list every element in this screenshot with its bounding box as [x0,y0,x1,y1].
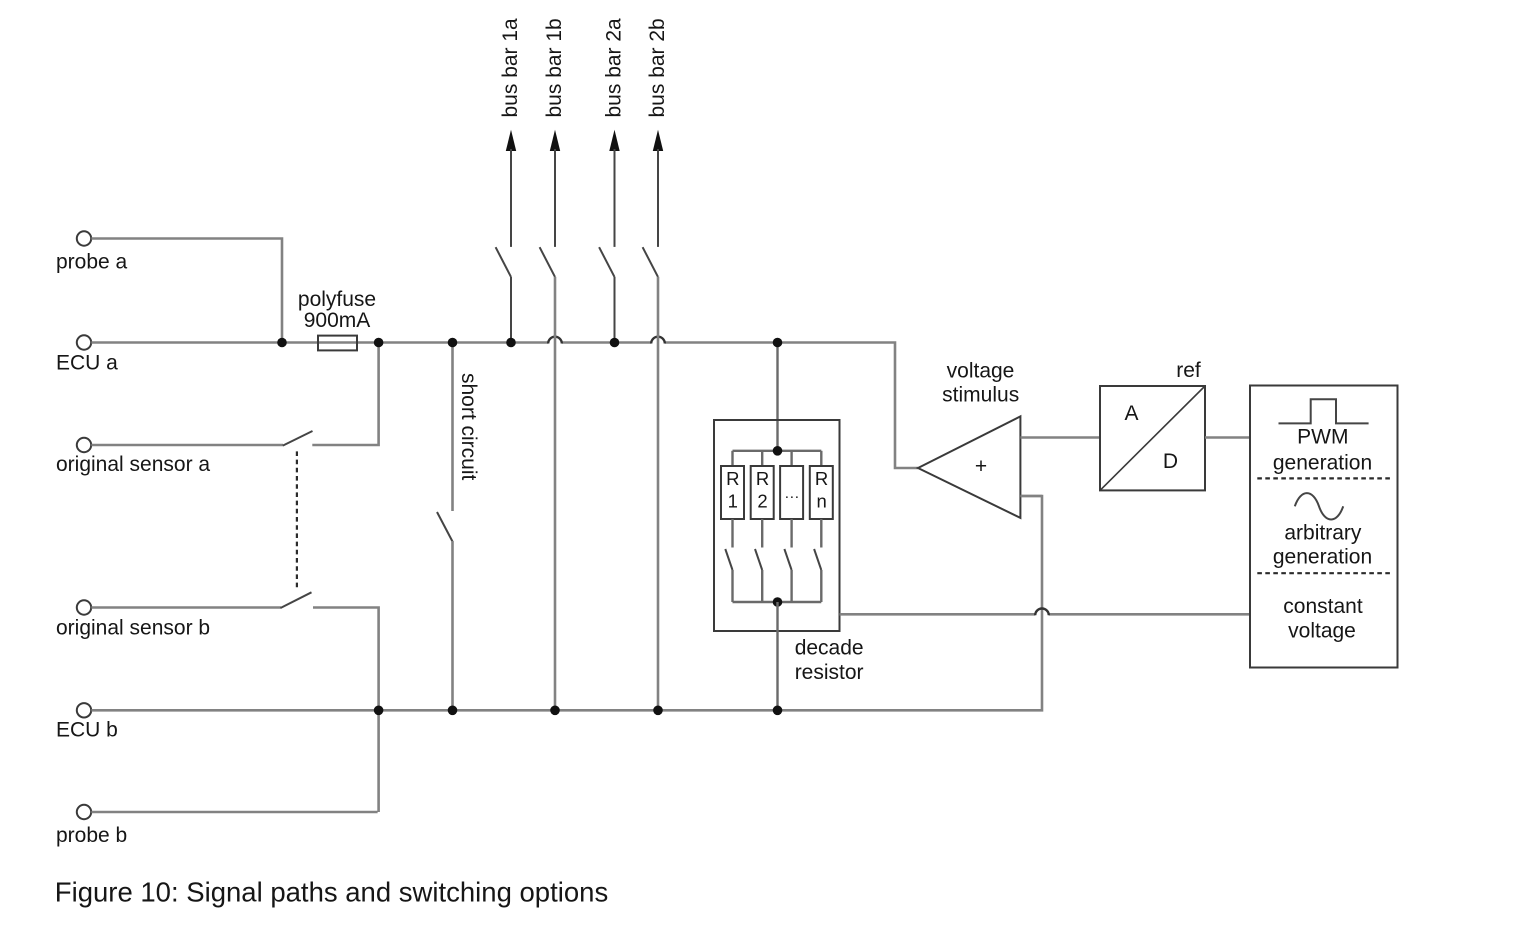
svg-text:R: R [756,468,769,489]
wire A/D to generator box [1205,436,1250,439]
wire original sensor b left [91,606,281,609]
resistor Rn [810,451,833,519]
terminal original sensor a [56,438,210,476]
generator box [1250,386,1398,668]
resistor R2 [751,451,774,519]
svg-text:n: n [816,491,826,512]
op-amp voltage stimulus [918,416,1020,518]
label bus bar 1b [543,18,566,117]
resistor R dots [780,451,803,519]
wire probe a to ECU a node [91,239,282,342]
switch original sensor a blade [283,431,313,446]
bus bar 2a arrow [609,130,619,247]
node ECU a / decade feed [773,338,783,348]
separator dashed 2 [1257,572,1390,574]
bus bar 2b switch blade [643,247,658,277]
svg-text:short circuit: short circuit [457,373,480,481]
wire ECU b row to op-amp input [91,496,1042,710]
node decade top [773,446,783,456]
svg-text:900mA: 900mA [304,309,371,332]
node ECU b / probe b [374,706,384,716]
node ECU b / bus bar 2b [653,706,663,716]
mechanical coupling dashed link [296,451,298,588]
separator dashed 1 [1257,477,1390,479]
bus bar 2a switch blade [599,247,614,277]
node ECU b / decade resistor [773,706,783,716]
svg-text:2: 2 [757,491,767,512]
svg-text:1: 1 [728,491,738,512]
polyfuse component [318,336,357,351]
svg-text:probe a: probe a [56,251,128,274]
node ECU a / bus bar 1a [506,338,516,348]
decade resistor box [714,420,840,631]
svg-text:bus bar 1b: bus bar 1b [543,18,566,117]
A/D converter U1 [1100,386,1205,490]
sine symbol [1295,493,1343,519]
svg-text:bus bar 1a: bus bar 1a [499,18,522,118]
switch short circuit (upper segment) [451,343,454,512]
wire op-amp to A/D [1020,436,1100,439]
node ECU b / short circuit [448,706,458,716]
svg-text:constant: constant [1283,595,1363,618]
resistor R1 [721,451,744,519]
label voltage stimulus [942,359,1019,406]
switch Rn [814,519,821,602]
bus bar 1b switch blade [540,247,555,277]
svg-text:A: A [1124,402,1138,425]
node decade bottom [773,597,783,607]
svg-text:D: D [1163,450,1178,473]
svg-text:R: R [815,468,828,489]
node ECU a / short circuit [448,338,458,348]
svg-text:voltage: voltage [1288,620,1356,643]
switch R1 [725,519,732,602]
svg-text:Figure 10: Signal paths and sw: Figure 10: Signal paths and switching op… [55,877,608,908]
terminal ECU b [56,703,118,741]
label arbitrary generation [1273,522,1372,569]
svg-text:ref: ref [1176,359,1201,382]
svg-text:voltage: voltage [947,359,1015,382]
svg-text:generation: generation [1273,451,1372,474]
wire decade resistor feed from ECU a [776,343,778,451]
wire decade bottom to ECU b [776,602,778,710]
wire probe b [91,811,377,814]
bus bar 1a arrow [506,130,516,247]
wire short circuit lower segment [451,541,454,710]
bus bar 1a switch blade [496,247,511,277]
svg-text:+: + [975,455,987,478]
terminal probe b [56,805,127,847]
label constant voltage [1283,595,1363,643]
wire hop over bus bar 1b [548,337,562,344]
label bus bar 2b [646,18,669,117]
node ECU a / bus bar 2a [610,338,620,348]
svg-text:ECU b: ECU b [56,719,118,742]
switch R dots [784,519,791,602]
terminal ECU a [56,335,118,374]
svg-text:original sensor a: original sensor a [56,453,210,476]
label decade resistor [795,637,864,684]
label PWM generation [1273,426,1372,475]
svg-text:resistor: resistor [795,661,864,684]
node ECU a / probe a [277,338,287,348]
svg-text:probe b: probe b [56,824,127,847]
decade resistor bottom rail [733,601,822,603]
wire op-amp lower input [1020,495,1042,498]
bus bar 1b arrow [550,130,560,247]
label bus bar 1a [499,18,522,118]
bus bar 2b arrow [653,130,663,247]
switch short circuit blade [437,512,453,542]
wire original sensor b right down to probe b [313,608,379,813]
wire bus bar 1a to ECU a [510,277,512,342]
switch original sensor b blade [281,592,312,608]
svg-text:stimulus: stimulus [942,383,1019,406]
decade resistor top rail [733,450,822,452]
wire decade output to constant voltage (hops over vertical) [840,613,1251,616]
wire original sensor a right up to fuse node [312,341,378,445]
terminal probe a [56,231,128,273]
label short circuit [457,373,480,481]
wire ECU a row (hops over bus bar 1b and 2b) [91,343,918,469]
svg-text:generation: generation [1273,546,1372,569]
svg-text:arbitrary: arbitrary [1284,522,1362,545]
switch R2 [755,519,762,602]
svg-text:ECU a: ECU a [56,352,118,375]
svg-text:decade: decade [795,637,864,660]
svg-text:···: ··· [784,488,799,505]
wire bus bar 2b down to ECU b (passes under hop) [657,277,660,710]
wire original sensor a left [91,444,283,447]
svg-text:bus bar 2a: bus bar 2a [603,18,626,118]
wire hop over op-amp feedback [1035,609,1049,616]
wire bus bar 1b down to ECU b (passes under hop) [554,277,557,710]
svg-text:R: R [726,468,739,489]
svg-text:polyfuse: polyfuse [298,288,376,311]
svg-text:bus bar 2b: bus bar 2b [646,18,669,117]
node ECU b / bus bar 1b [550,706,560,716]
wire hop over bus bar 2b [651,337,665,344]
node ECU a after fuse [374,338,384,348]
wire bus bar 2a to ECU a [614,277,616,342]
terminal original sensor b [56,600,210,639]
svg-text:PWM: PWM [1297,426,1348,449]
label polyfuse 900mA [298,288,376,332]
PWM pulse symbol [1279,399,1369,423]
svg-text:original sensor b: original sensor b [56,617,210,640]
label bus bar 2a [603,18,626,118]
